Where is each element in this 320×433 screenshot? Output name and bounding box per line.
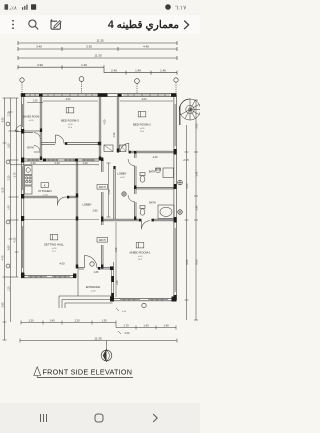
svg-text:17.1: 17.1 [52, 251, 57, 253]
bubble under mbed wall [142, 303, 146, 307]
svg-text:1.50: 1.50 [116, 280, 119, 285]
bubble near entrance [90, 262, 94, 266]
svg-text:16.0: 16.0 [138, 259, 143, 261]
status bar left icons [0, 0, 60, 15]
svg-text:BED ROOM-3: BED ROOM-3 [61, 118, 79, 122]
top exterior wall [21, 93, 177, 97]
svg-text:11.35: 11.35 [96, 39, 104, 43]
svg-text:2.80: 2.80 [93, 210, 98, 213]
grid bubbles top [20, 77, 178, 93]
svg-text:3.00: 3.00 [2, 117, 5, 122]
drawing paper [0, 34, 200, 403]
bottom navigation bar [0, 403, 200, 433]
setting hall south wall (y277) [21, 273, 76, 278]
interior dim 4.00 bed3 [43, 98, 98, 101]
lobby lower label [82, 203, 98, 213]
status bar right: notification dot + time [160, 0, 200, 15]
svg-text:LOBBY: LOBBY [82, 203, 91, 207]
svg-text:0.60: 0.60 [125, 332, 130, 335]
svg-text:11.35: 11.35 [94, 54, 102, 58]
svg-text:+0.20: +0.20 [51, 248, 57, 250]
dim row 4 right (2.40 1.40 1.40) [104, 68, 177, 74]
svg-text:12.6: 12.6 [68, 127, 73, 129]
svg-text:1.70: 1.70 [123, 324, 129, 328]
svg-text:4.40: 4.40 [2, 255, 5, 260]
setting hall label [44, 235, 64, 254]
svg-text:0.40: 0.40 [122, 311, 127, 313]
svg-text:16.0: 16.0 [140, 131, 145, 133]
hall beam line [24, 219, 99, 221]
svg-text:4.00: 4.00 [113, 132, 116, 137]
svg-text:LOBBY: LOBBY [117, 172, 126, 176]
shoes room label [23, 116, 39, 122]
bed room 3 south wall (y143.5) [41, 142, 101, 145]
elevation datum symbol [101, 341, 112, 363]
bath upper fixtures [140, 168, 174, 182]
nav back [153, 414, 157, 422]
dim row under y160 wall [10, 161, 99, 165]
svg-text:1.40: 1.40 [135, 68, 141, 72]
lobby south wall + entrance opening (y268) [78, 266, 113, 270]
kitchen fixtures [25, 166, 33, 195]
svg-text:3.90: 3.90 [37, 63, 43, 67]
interior dim 4.00 bed2 [120, 98, 173, 101]
svg-text:+5.70: +5.70 [183, 160, 190, 162]
right dim line outer [194, 100, 198, 320]
app bar overflow menu icon [0, 15, 200, 34]
shoes room door [34, 133, 41, 139]
dim row 4 left (3.90 1.40) [18, 63, 104, 73]
porch steps [59, 296, 113, 308]
bubble lobby east wall [122, 192, 126, 196]
svg-text:FRONT SIDE ELEVATION: FRONT SIDE ELEVATION [43, 367, 133, 376]
corridor wardrobes [104, 145, 126, 152]
wall shoes/bath divider (y132) [24, 131, 40, 133]
interior dim 1.30 shoes [27, 100, 43, 103]
svg-text:1.40: 1.40 [8, 205, 11, 210]
svg-text:4.20: 4.20 [108, 189, 111, 194]
svg-text:ARCH: ARCH [99, 239, 106, 242]
svg-text:3.60: 3.60 [8, 245, 11, 250]
svg-text:BED ROOM-2: BED ROOM-2 [133, 122, 151, 126]
svg-text:1.80: 1.80 [94, 271, 99, 274]
left dim lines [2, 98, 19, 340]
shoes room outer door [16, 126, 22, 132]
svg-text:4.00: 4.00 [59, 262, 65, 266]
svg-text:1.40: 1.40 [163, 324, 169, 328]
svg-text:+0.20: +0.20 [67, 124, 73, 126]
entrance door [85, 256, 98, 269]
title underline [37, 376, 133, 378]
svg-text:4.00: 4.00 [66, 98, 71, 101]
front side elevation marker triangle [34, 367, 41, 378]
svg-text:K: K [44, 183, 46, 187]
arch label lower [97, 238, 108, 243]
bath upper door [128, 159, 135, 166]
svg-text:3.70: 3.70 [14, 172, 17, 177]
svg-text:+0.20: +0.20 [137, 256, 143, 258]
svg-text:2.20: 2.20 [74, 319, 80, 323]
svg-text:6.20: 6.20 [2, 187, 5, 192]
dim row 1 total 11.35 [18, 39, 177, 45]
svg-text:+0.20: +0.20 [139, 128, 145, 130]
app bar back chevron (RTL) [184, 21, 188, 29]
svg-text:KITCHEN: KITCHEN [38, 189, 51, 193]
spiral stair [180, 99, 201, 125]
lobby upper label [117, 172, 126, 179]
bed room 2 door [120, 144, 129, 153]
svg-text:ENTRANCE: ENTRANCE [86, 285, 101, 289]
svg-text:4.00: 4.00 [104, 119, 107, 124]
svg-text:1.30: 1.30 [101, 319, 107, 323]
baths divider wall (y188) [136, 187, 174, 189]
entrance label [86, 285, 101, 293]
bed room 3 label [61, 108, 79, 130]
svg-text:2.95: 2.95 [195, 123, 198, 128]
svg-text:2.20: 2.20 [153, 156, 158, 159]
right dim line inner [185, 125, 190, 320]
svg-text:1.20: 1.20 [8, 286, 11, 291]
svg-text:4.40: 4.40 [143, 45, 149, 49]
left bubbles [6, 122, 10, 268]
svg-text:BATH: BATH [149, 202, 156, 205]
svg-text:+0.20: +0.20 [119, 177, 125, 179]
svg-text:+0.20: +0.20 [28, 120, 34, 122]
svg-text:1.20: 1.20 [28, 319, 34, 323]
wall shoes/bath east (x41) [40, 97, 42, 160]
svg-text:6.00: 6.00 [195, 259, 198, 264]
svg-text:BATH: BATH [27, 147, 33, 150]
nav home [95, 414, 103, 422]
lobby west arched wall (x102) [101, 158, 103, 269]
svg-text:4.20: 4.20 [14, 237, 17, 242]
app bar edit icon [51, 20, 61, 29]
corridor dim line [107, 163, 112, 217]
svg-text:1.60: 1.60 [8, 143, 11, 148]
right wall bubbles [178, 180, 183, 214]
svg-text:1.30: 1.30 [33, 100, 38, 103]
svg-text:2.30: 2.30 [54, 161, 60, 165]
bottom total dim 11.35 [20, 336, 177, 342]
svg-text:2.60: 2.60 [2, 302, 5, 307]
svg-text:3.40: 3.40 [36, 45, 42, 49]
level mark below mbed wall [116, 308, 127, 313]
dim row 3 total 11.35 [18, 54, 177, 60]
bed room 2 south wall (y152) [118, 151, 174, 154]
svg-text:1.40: 1.40 [49, 319, 55, 323]
svg-text:1.40: 1.40 [160, 68, 166, 72]
svg-text:SHOES ROOM: SHOES ROOM [23, 116, 39, 119]
bath west wall (x135) [134, 151, 136, 220]
corridor west wall (x100) [99, 97, 101, 161]
bed room 2 label [133, 112, 151, 134]
svg-text:1.20: 1.20 [82, 161, 88, 165]
kitchen south wall (y197) [24, 196, 76, 199]
svg-text:BATH: BATH [149, 170, 156, 173]
mbed north wall (y220) [103, 219, 174, 222]
svg-text:6.00: 6.00 [186, 259, 189, 264]
svg-text:ARCH: ARCH [99, 186, 106, 189]
kitchen label [38, 183, 51, 197]
mbed door [142, 221, 151, 230]
left dim extra ticks [2, 112, 19, 322]
svg-text:2.00: 2.00 [186, 183, 189, 188]
bottom dim row upper-right [116, 324, 176, 335]
lobby east wall (x114.5) [113, 166, 115, 219]
right exterior wall [174, 95, 177, 300]
mbed south wall (y300) [110, 297, 177, 302]
svg-text:1.40: 1.40 [195, 205, 198, 210]
kitchen east wall (x77) [76, 160, 78, 269]
bed room 3 door [56, 135, 65, 144]
svg-text:2.30: 2.30 [30, 161, 36, 165]
porch outline [78, 262, 119, 299]
kitchen door [58, 197, 67, 206]
svg-text:1.40: 1.40 [81, 63, 87, 67]
bath lower door [128, 195, 135, 202]
bed room 2 west wall (x118) [117, 97, 119, 153]
svg-text:1.20: 1.20 [115, 247, 118, 252]
nav recents [41, 414, 47, 422]
svg-text:+0.20: +0.20 [90, 291, 96, 293]
status bar [0, 0, 200, 15]
dim row 2 (3.40 / 3.30 / 4.40) [18, 45, 177, 51]
app bar search icon [29, 20, 38, 29]
svg-text:4.00: 4.00 [142, 98, 147, 101]
svg-text:+0.20: +0.20 [42, 195, 48, 197]
kitchen north wall (y160) [24, 159, 99, 162]
svg-text:1.40: 1.40 [143, 324, 149, 328]
bath lower fixtures [140, 205, 174, 219]
arch label upper [97, 185, 108, 190]
svg-text:11.35: 11.35 [94, 336, 102, 340]
m.bed room label [130, 243, 151, 262]
rotated dims corridor [104, 119, 119, 297]
left exterior wall [21, 95, 24, 278]
bath1 door [34, 146, 41, 153]
app bar [0, 15, 200, 34]
svg-text:3.30: 3.30 [86, 45, 92, 49]
svg-text:M.BED ROOM-1: M.BED ROOM-1 [130, 250, 151, 254]
svg-text:2.40: 2.40 [111, 68, 117, 72]
svg-text:1.40: 1.40 [195, 171, 198, 176]
bottom dim row upper-left [21, 319, 116, 328]
svg-text:2.30: 2.30 [8, 175, 11, 180]
svg-text:SETTING HALL: SETTING HALL [44, 242, 64, 246]
